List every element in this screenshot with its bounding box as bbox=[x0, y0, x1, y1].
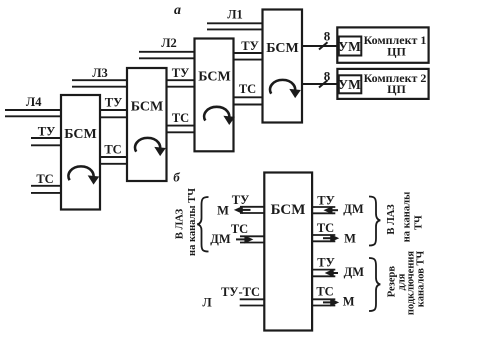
left pair TS/DM bbox=[240, 236, 264, 242]
wire pair L4 bbox=[5, 110, 61, 116]
svg-text:8: 8 bbox=[324, 29, 331, 44]
svg-text:ТУ-ТС: ТУ-ТС bbox=[221, 285, 260, 299]
svg-text:БСМ: БСМ bbox=[131, 100, 163, 115]
svg-text:на каналы: на каналы bbox=[401, 192, 412, 243]
svg-text:ТУ: ТУ bbox=[38, 125, 56, 139]
wire pair L1 bbox=[207, 23, 263, 29]
svg-text:каналов ТЧ: каналов ТЧ bbox=[415, 250, 426, 307]
svg-text:ЦП: ЦП bbox=[387, 82, 406, 96]
wire pair TU between BSM2 and BSM3 bbox=[167, 80, 195, 87]
svg-text:Л1: Л1 bbox=[227, 8, 243, 22]
svg-text:БСМ: БСМ bbox=[266, 41, 298, 56]
svg-text:б: б bbox=[173, 170, 180, 185]
svg-text:а: а bbox=[174, 3, 181, 18]
svg-text:М: М bbox=[344, 232, 356, 246]
svg-text:БСМ: БСМ bbox=[64, 127, 96, 142]
svg-text:М: М bbox=[217, 204, 229, 218]
wire pair TU between BSM1 and BSM2 bbox=[100, 110, 127, 117]
svg-text:ТУ: ТУ bbox=[241, 39, 259, 53]
svg-text:ТУ: ТУ bbox=[105, 96, 123, 110]
svg-text:В ЛАЗ: В ЛАЗ bbox=[386, 204, 397, 235]
block BSM2 bbox=[127, 68, 167, 181]
wire pair TS between BSM2 and BSM3 bbox=[167, 126, 195, 133]
rotation arrow BSM4 bbox=[270, 80, 299, 96]
rotation arrow BSM3 bbox=[204, 107, 232, 123]
svg-text:ДМ: ДМ bbox=[344, 265, 365, 279]
svg-text:М: М bbox=[343, 295, 355, 309]
svg-text:Л2: Л2 bbox=[161, 36, 177, 50]
svg-text:ТС: ТС bbox=[231, 222, 248, 236]
svg-text:ЦП: ЦП bbox=[387, 44, 406, 58]
svg-text:ТУ: ТУ bbox=[317, 256, 335, 270]
svg-text:УМ: УМ bbox=[338, 77, 361, 92]
block BSM3 bbox=[195, 39, 234, 152]
right pair TS/M bottom bbox=[312, 299, 335, 305]
rotation arrow BSM1 bbox=[68, 166, 97, 182]
arrow right TS/M bottom bbox=[323, 299, 338, 306]
wire pair L2 bbox=[139, 52, 195, 59]
block BSM4 bbox=[263, 10, 303, 123]
svg-text:ТС: ТС bbox=[316, 285, 333, 299]
left brace bbox=[197, 197, 208, 252]
right pair TU/DM top bbox=[312, 207, 335, 213]
right brace top bbox=[369, 197, 380, 246]
right pair TU/DM bottom bbox=[312, 270, 335, 277]
svg-text:ТУ: ТУ bbox=[232, 193, 250, 207]
bus slash 2 bbox=[319, 80, 328, 87]
svg-text:БСМ: БСМ bbox=[271, 202, 306, 218]
wire pair L3 bbox=[72, 80, 127, 87]
svg-text:ТЧ: ТЧ bbox=[414, 215, 425, 230]
wire pair TU between BSM3 and BSM4 bbox=[234, 53, 263, 60]
box Komplekt 1 bbox=[337, 27, 428, 62]
box UM1 bbox=[339, 37, 362, 56]
svg-text:УМ: УМ bbox=[338, 39, 361, 54]
wire pair TS between BSM1 and BSM2 bbox=[100, 157, 127, 164]
box Komplekt 2 bbox=[337, 69, 428, 99]
svg-text:Л4: Л4 bbox=[26, 95, 42, 109]
svg-text:ТС: ТС bbox=[172, 111, 189, 125]
svg-text:ТУ: ТУ bbox=[172, 66, 190, 80]
right pair TS/M top bbox=[312, 235, 335, 241]
wire pair TS left of BSM1 bbox=[31, 186, 61, 193]
svg-text:ТС: ТС bbox=[317, 221, 334, 235]
wire to UM1 bbox=[302, 45, 339, 47]
left pair TU/M bbox=[240, 207, 264, 213]
block BSM1 bbox=[61, 95, 100, 210]
bus slash 1 bbox=[319, 42, 328, 49]
left pair L TU-TS bbox=[240, 299, 265, 305]
svg-text:ТС: ТС bbox=[104, 143, 121, 157]
block BSM part b bbox=[264, 173, 312, 331]
svg-text:Л: Л bbox=[202, 296, 212, 310]
svg-text:ТС: ТС bbox=[239, 82, 256, 96]
svg-text:В ЛАЗ: В ЛАЗ bbox=[174, 208, 185, 239]
box UM2 bbox=[339, 75, 362, 93]
arrow left TU/M bbox=[235, 207, 251, 214]
svg-text:ДМ: ДМ bbox=[343, 202, 364, 216]
svg-text:8: 8 bbox=[324, 68, 331, 83]
wire pair TU left of BSM1 bbox=[31, 138, 61, 145]
svg-text:БСМ: БСМ bbox=[198, 70, 230, 85]
svg-text:на каналы ТЧ: на каналы ТЧ bbox=[187, 188, 198, 256]
wire to UM2 bbox=[302, 83, 338, 85]
arrow right TS/M bbox=[323, 235, 338, 242]
rotation arrow BSM2 bbox=[135, 138, 164, 154]
wire pair TS between BSM3 and BSM4 bbox=[234, 97, 263, 104]
svg-text:ТС: ТС bbox=[36, 172, 53, 186]
arrow left TU/DM bbox=[325, 207, 338, 214]
svg-text:ТУ: ТУ bbox=[317, 194, 335, 208]
arrow right TS/DM bbox=[236, 236, 252, 243]
svg-text:ДМ: ДМ bbox=[210, 232, 231, 246]
arrow left TU/DM bottom bbox=[326, 270, 338, 277]
svg-text:Л3: Л3 bbox=[92, 66, 108, 80]
right brace bottom bbox=[369, 258, 380, 311]
